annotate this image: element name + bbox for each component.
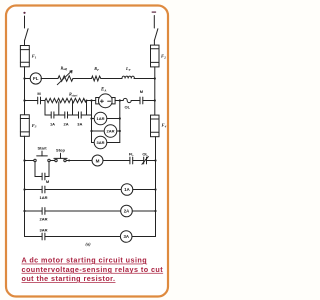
wire tap 2 <box>58 102 60 115</box>
svg-text:Rstart: Rstart <box>69 92 77 98</box>
node rung3 left <box>23 210 25 212</box>
inductor LF <box>122 76 134 78</box>
wire 2A coil to right rail <box>132 210 155 212</box>
wire to fuse F1 <box>24 40 26 45</box>
wire to 2AR contact <box>25 210 43 212</box>
motor armature EA <box>99 94 113 108</box>
wire 2AR to 2A coil <box>45 210 121 212</box>
wire 3A coil to right rail <box>132 236 156 238</box>
fuse F2 <box>151 45 160 67</box>
svg-text:Stop: Stop <box>56 148 65 153</box>
contact 2A <box>65 112 68 118</box>
node 1AR right <box>119 117 121 119</box>
wire OL to right rail <box>147 160 156 162</box>
svg-text:EA: EA <box>100 88 106 93</box>
svg-text:3A: 3A <box>123 234 129 239</box>
node rung3 right <box>154 210 156 212</box>
wire left rail upper <box>24 67 26 115</box>
node control rung1 left <box>23 159 25 161</box>
wire Radj to RF <box>73 78 92 80</box>
wire FL to OL contact <box>133 160 144 162</box>
svg-text:(a): (a) <box>85 242 91 247</box>
wire left rail lower <box>24 136 26 236</box>
svg-text:1AR: 1AR <box>39 195 47 200</box>
svg-text:OL: OL <box>125 104 131 109</box>
node Rstart-armature <box>90 99 92 101</box>
wire to FL coil <box>25 78 31 80</box>
contact OL (NC) <box>142 157 148 165</box>
wire 2AR leads <box>92 130 120 132</box>
wire to M contact <box>25 100 38 102</box>
svg-text:3AR: 3AR <box>39 228 47 233</box>
wire M coil to FL contact <box>103 160 130 162</box>
wire 3AR leads <box>92 142 120 144</box>
svg-text:1AR: 1AR <box>96 116 104 121</box>
relay coil 1AR <box>94 112 107 125</box>
svg-text:2AR: 2AR <box>106 129 114 134</box>
contact FL <box>130 157 133 164</box>
pushbutton Stop <box>54 153 67 161</box>
wire 1AR leads <box>92 118 120 120</box>
wire right rail upper <box>154 67 156 115</box>
svg-text:Start: Start <box>37 146 47 151</box>
wire M holding branch <box>35 162 49 177</box>
node armature-OL <box>119 99 121 101</box>
svg-text:countervoltage-sensing relays: countervoltage-sensing relays to cut <box>22 265 164 274</box>
wire to fuse F2 <box>153 40 155 45</box>
wire tap 4 <box>86 101 88 116</box>
fuse F4 <box>151 115 160 137</box>
wire left terminal <box>24 16 26 28</box>
node rung2 right <box>154 188 156 190</box>
relay coil 1A <box>121 184 133 196</box>
switch S1 blade <box>25 29 28 40</box>
relay coil 3AR <box>94 136 107 149</box>
wire Start to Stop <box>50 160 55 162</box>
node armature row left <box>23 99 25 101</box>
contact 3A <box>79 112 82 118</box>
wire to 1AR contact <box>25 189 43 191</box>
svg-text:FL: FL <box>33 76 39 81</box>
overload heater OL <box>120 98 131 102</box>
node 2AR left <box>90 130 92 132</box>
node field row right <box>154 77 156 79</box>
contact 1AR <box>42 186 45 193</box>
wire to Start <box>25 160 34 162</box>
switch S2 blade <box>155 29 158 40</box>
svg-text:F4: F4 <box>162 123 167 129</box>
contact M (holding) <box>42 173 45 180</box>
node 1AR left <box>90 117 92 119</box>
fuse F3 <box>20 115 29 137</box>
contact M (main, left) <box>38 97 41 104</box>
wire to 3AR contact <box>25 236 43 238</box>
terminal + (positive supply) <box>23 12 25 14</box>
wire OL to M contact <box>131 100 140 102</box>
wire to armature <box>87 100 96 102</box>
node armature row right <box>154 99 156 101</box>
svg-text:RF: RF <box>94 66 99 72</box>
svg-text:F2: F2 <box>161 54 166 60</box>
relay coil 2A <box>121 205 133 217</box>
svg-text:F3: F3 <box>32 123 37 129</box>
relay coil 3A <box>120 231 132 243</box>
contact M (main, right) <box>140 97 143 104</box>
frame border <box>6 6 168 297</box>
wire right rail lower <box>155 137 157 237</box>
wire AR left rail <box>91 101 93 143</box>
armature brush right <box>112 98 115 104</box>
wire FL to Radj <box>41 78 58 80</box>
node control rung1 right <box>154 159 156 161</box>
rheostat Radj <box>57 71 73 85</box>
svg-text:3A: 3A <box>77 121 82 126</box>
node rung2 left <box>23 188 25 190</box>
node field row left <box>23 77 25 79</box>
wire bus to rail stub <box>87 114 92 116</box>
svg-text:M: M <box>96 158 100 163</box>
wire to right rail <box>143 100 155 102</box>
armature brush left <box>96 98 99 104</box>
relay coil FL <box>30 73 41 84</box>
wire armature to node <box>115 100 120 102</box>
wire tap 1 <box>44 101 46 116</box>
node Rstart right end <box>86 100 88 102</box>
svg-text:out the starting resistor.: out the starting resistor. <box>22 274 116 283</box>
wire bypass bus <box>45 114 87 116</box>
wire LF to right rail <box>134 78 155 80</box>
wire M to Rstart <box>41 100 46 102</box>
wire tap 3 <box>72 102 74 115</box>
contact 1A <box>51 112 54 118</box>
contact 3AR <box>42 233 45 240</box>
wire Stop to M coil <box>66 160 92 162</box>
wire 3AR to 3A coil <box>45 236 121 238</box>
terminal - (negative supply) <box>152 12 156 13</box>
svg-text:Radj: Radj <box>61 65 68 71</box>
contact 2AR <box>42 208 45 215</box>
svg-text:A dc motor starting circuit us: A dc motor starting circuit using <box>22 256 148 265</box>
svg-text:3AR: 3AR <box>96 140 104 145</box>
svg-text:2A: 2A <box>124 209 130 214</box>
svg-text:LF: LF <box>125 66 131 72</box>
relay coil 2AR <box>104 125 117 138</box>
resistor RF <box>92 76 101 81</box>
wire AR right rail <box>119 101 121 143</box>
node 2AR right <box>119 130 121 132</box>
resistor Rstart <box>45 98 87 102</box>
wire 1A coil to right rail <box>133 189 156 191</box>
fuse F1 <box>20 46 29 67</box>
svg-text:1A: 1A <box>124 187 130 192</box>
wire RF to LF <box>101 78 122 80</box>
svg-text:1A: 1A <box>50 121 55 126</box>
svg-text:FL: FL <box>129 152 134 157</box>
node after Stop <box>68 160 70 162</box>
relay coil M <box>92 155 103 166</box>
wire right terminal <box>153 16 155 29</box>
svg-text:2AR: 2AR <box>39 217 47 222</box>
svg-text:2A: 2A <box>64 121 69 126</box>
wire 1AR to 1A coil <box>45 189 121 191</box>
svg-text:OL: OL <box>142 152 148 157</box>
pushbutton Start <box>34 151 50 162</box>
svg-text:F1: F1 <box>32 54 37 60</box>
